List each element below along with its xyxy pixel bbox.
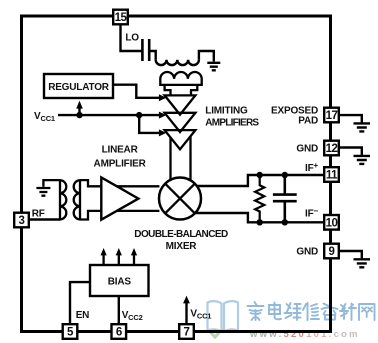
IC outline box	[22, 16, 331, 332]
pin 12	[324, 141, 339, 156]
ground at pin 17	[340, 115, 362, 122]
svg-text:MIXER: MIXER	[166, 241, 198, 252]
wire VCC1 to limiting amp 2	[58, 114, 160, 116]
wire regulator to limiting amp 1	[113, 85, 160, 98]
wire secondary to limiting amplifier steps	[165, 85, 198, 96]
ground at pin 12	[340, 148, 362, 156]
wire LO from pin 15 down to capacitor	[121, 25, 143, 51]
wire cap to transformer primary	[149, 51, 156, 60]
node dots IF	[257, 172, 263, 178]
svg-text:12: 12	[326, 143, 338, 155]
svg-text:7: 7	[184, 327, 190, 339]
pin 17	[324, 108, 339, 123]
wire primary to ground	[199, 51, 214, 62]
resistor R-IF	[255, 175, 264, 222]
svg-text:LIMITING: LIMITING	[205, 106, 248, 117]
wire branch to limiting amp 3	[139, 115, 159, 133]
node junction dot A	[76, 112, 82, 118]
svg-text:BIAS: BIAS	[108, 277, 132, 288]
limiting amplifier A1	[165, 95, 196, 114]
svg-text:AMPLIFIERS: AMPLIFIERS	[205, 117, 259, 128]
wire amp outputs to mixer	[116, 186, 159, 211]
pin 10	[324, 215, 339, 230]
svg-text:DOUBLE-BALANCED: DOUBLE-BALANCED	[134, 229, 228, 240]
svg-text:EN: EN	[76, 310, 90, 321]
svg-text:PAD: PAD	[298, 115, 318, 126]
svg-text:LO: LO	[125, 32, 139, 43]
limiting amplifier A3	[165, 130, 196, 149]
wire EN pin5 to bias	[70, 282, 90, 323]
wire RF pin to winding	[30, 218, 60, 220]
svg-text:6: 6	[116, 327, 122, 339]
svg-text:AMPLIFIER: AMPLIFIER	[94, 158, 147, 169]
watermark chinese characters	[248, 302, 375, 320]
transformer T-RF right winding	[74, 180, 80, 219]
node junction dot B	[136, 112, 142, 118]
wire rails amps to mixer	[171, 136, 191, 181]
wire winding to amp inputs	[80, 180, 101, 219]
pin 9	[324, 244, 339, 259]
capacitor C-IF	[273, 175, 297, 222]
watermark book icon	[208, 301, 239, 331]
mixer M1 double-balanced	[159, 178, 201, 220]
wire mixer to IF+	[197, 175, 323, 186]
transformer T-LO secondary winding	[160, 72, 201, 85]
svg-text:9: 9	[329, 246, 335, 258]
wire bias arrows up	[104, 255, 134, 265]
svg-text:RF: RF	[32, 209, 45, 220]
svg-text:10: 10	[326, 217, 338, 229]
wire mixer to IF-	[195, 213, 323, 222]
svg-text:LINEAR: LINEAR	[102, 145, 139, 156]
svg-text:17: 17	[326, 110, 338, 122]
pin 15	[113, 10, 128, 25]
svg-text:GND: GND	[296, 247, 318, 258]
svg-text:15: 15	[115, 12, 128, 24]
limiting amplifier A2	[165, 113, 196, 132]
wire arrow up to regulator	[78, 108, 80, 115]
svg-text:11: 11	[326, 170, 338, 182]
ground LO	[207, 63, 220, 71]
pin 5	[63, 324, 78, 339]
ground RF	[36, 188, 50, 196]
transformer T-LO primary winding	[156, 60, 199, 65]
pin 7	[179, 324, 194, 339]
svg-text:REGULATOR: REGULATOR	[48, 82, 110, 93]
wire VCC2 pin6 to bias	[118, 296, 120, 323]
bias box U-BIAS	[90, 265, 149, 296]
ground at pin 9	[340, 251, 362, 258]
regulator box U-REG	[44, 74, 113, 98]
pin 11	[324, 167, 339, 182]
wire VCC1 arrow pin7	[185, 303, 187, 323]
capacitor C-LO	[142, 39, 149, 61]
pin 6	[112, 324, 127, 339]
svg-text:GND: GND	[296, 144, 318, 155]
svg-text:3: 3	[19, 215, 25, 227]
pin 3	[14, 213, 29, 228]
transformer T-RF left winding	[60, 180, 66, 219]
wire RF winding top to ground	[43, 180, 60, 187]
watermark green mark	[208, 329, 223, 338]
